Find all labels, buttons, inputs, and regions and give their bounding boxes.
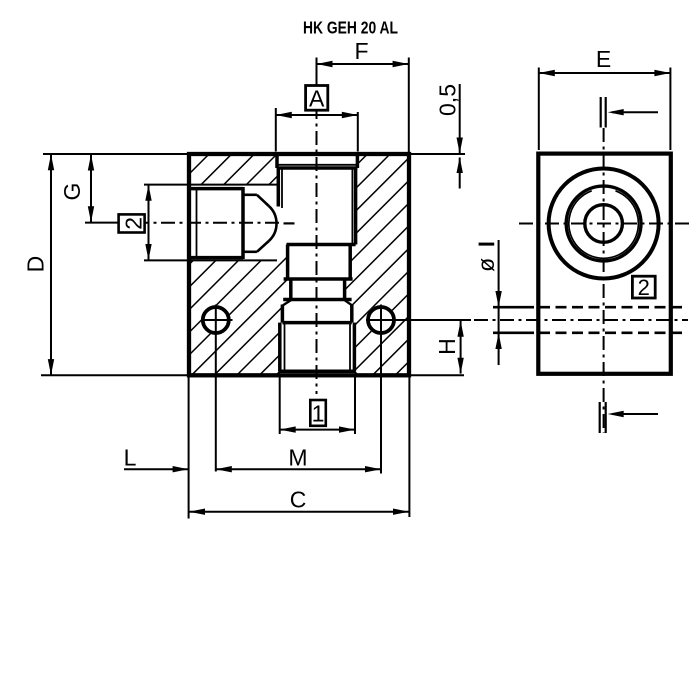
side port centerline bbox=[85, 222, 135, 224]
dimension F bbox=[316, 58, 318, 80]
port 2 thread arc (thin, broken) bbox=[569, 191, 639, 259]
boxed label 2 (left) bbox=[119, 214, 145, 232]
port 1 thread minor lines bbox=[284, 323, 286, 372]
svg-text:E: E bbox=[596, 46, 611, 72]
dimension A bbox=[276, 114, 358, 116]
svg-text:0,5: 0,5 bbox=[435, 84, 461, 116]
top port thread major lines bbox=[278, 168, 355, 245]
svg-text:ø: ø bbox=[473, 258, 499, 272]
svg-text:M: M bbox=[288, 444, 307, 470]
bottom edge extension right (H ref) bbox=[409, 374, 464, 376]
dimension G bbox=[90, 155, 92, 222]
hidden mounting hole line bottom bbox=[493, 331, 534, 334]
svg-text:H: H bbox=[434, 338, 460, 355]
svg-text:G: G bbox=[59, 183, 85, 201]
plug neck bbox=[243, 194, 257, 197]
right view vertical centerline bbox=[603, 128, 605, 433]
boxed label A bbox=[306, 86, 328, 111]
top port A counterbore bbox=[277, 154, 357, 168]
port 1 counterbore bbox=[281, 305, 285, 323]
svg-text:L: L bbox=[124, 445, 137, 471]
dimension E bbox=[539, 72, 671, 74]
top port thread minor lines bbox=[282, 168, 352, 243]
drill tip stub line bbox=[284, 222, 295, 224]
top edge extension left (D ref) bbox=[43, 153, 189, 155]
dimension D bbox=[50, 154, 52, 375]
dimension C bbox=[188, 377, 190, 519]
vertical centerline of bore bbox=[316, 79, 318, 394]
svg-text:D: D bbox=[23, 256, 49, 273]
mounting hole right bbox=[368, 307, 394, 333]
port 1 entry chamfers bbox=[283, 300, 291, 305]
dimension 0,5 bbox=[459, 84, 461, 153]
cavity step 3 bbox=[283, 298, 351, 302]
right hole vertical / M extension bbox=[380, 305, 382, 474]
right hole horizontal / H extension bbox=[366, 319, 471, 321]
plug nose cone bbox=[257, 195, 269, 206]
dimension 2 (plug OD) bbox=[148, 185, 150, 260]
left hole crosshair horizontal bbox=[201, 319, 233, 321]
cavity mid bore walls bbox=[286, 245, 290, 280]
port 1 bottom chamfer line bbox=[280, 370, 355, 374]
port 1 bottom corner chamfers bbox=[277, 371, 280, 375]
boxed label 1 bbox=[310, 400, 326, 426]
dimension M bbox=[216, 468, 381, 470]
right view horizontal centerline bbox=[519, 223, 689, 225]
cavity step 1 bbox=[287, 243, 356, 247]
mounting hole centerline (right view) bbox=[474, 319, 688, 321]
port 2 thread OD circle bbox=[566, 186, 641, 261]
mounting hole left bbox=[203, 307, 229, 333]
svg-text:C: C bbox=[290, 486, 307, 512]
svg-text:A: A bbox=[309, 86, 325, 112]
hatched section of front view block bbox=[189, 154, 409, 375]
bottom edge extension left (D ref) bbox=[41, 374, 189, 376]
left hole vertical / M extension bbox=[215, 305, 217, 472]
cavity neck walls bbox=[289, 279, 293, 300]
hidden mounting hole line top bbox=[493, 306, 534, 309]
port 2 inner hole circle bbox=[585, 205, 623, 243]
side port hole edges / dim 2 extension lines bbox=[144, 184, 277, 186]
svg-text:F: F bbox=[354, 38, 368, 64]
right view block outline bbox=[538, 154, 671, 374]
top edge extension right (0.5 ref) bbox=[409, 153, 465, 155]
svg-text:2: 2 bbox=[638, 275, 650, 300]
port 1 thread major lines bbox=[278, 323, 282, 372]
boxed label 2 (right view) bbox=[632, 276, 655, 298]
dimension L bbox=[124, 468, 189, 470]
port 2 outer circle bbox=[549, 169, 659, 279]
plug nose dome bbox=[269, 206, 277, 241]
svg-text:2: 2 bbox=[120, 217, 146, 230]
svg-text:1: 1 bbox=[312, 401, 325, 427]
svg-text:HK GEH 20 AL: HK GEH 20 AL bbox=[303, 18, 398, 38]
dimension H bbox=[460, 321, 462, 374]
cavity step 2 bbox=[284, 277, 353, 281]
section mark top bbox=[600, 97, 602, 128]
front view block outline bbox=[189, 154, 409, 375]
plug (fitting) in side port bbox=[189, 187, 243, 259]
dimension ø I bbox=[498, 240, 500, 365]
dimension 1 (port 1) extension lines bbox=[279, 377, 281, 434]
section mark bottom bbox=[599, 402, 601, 433]
